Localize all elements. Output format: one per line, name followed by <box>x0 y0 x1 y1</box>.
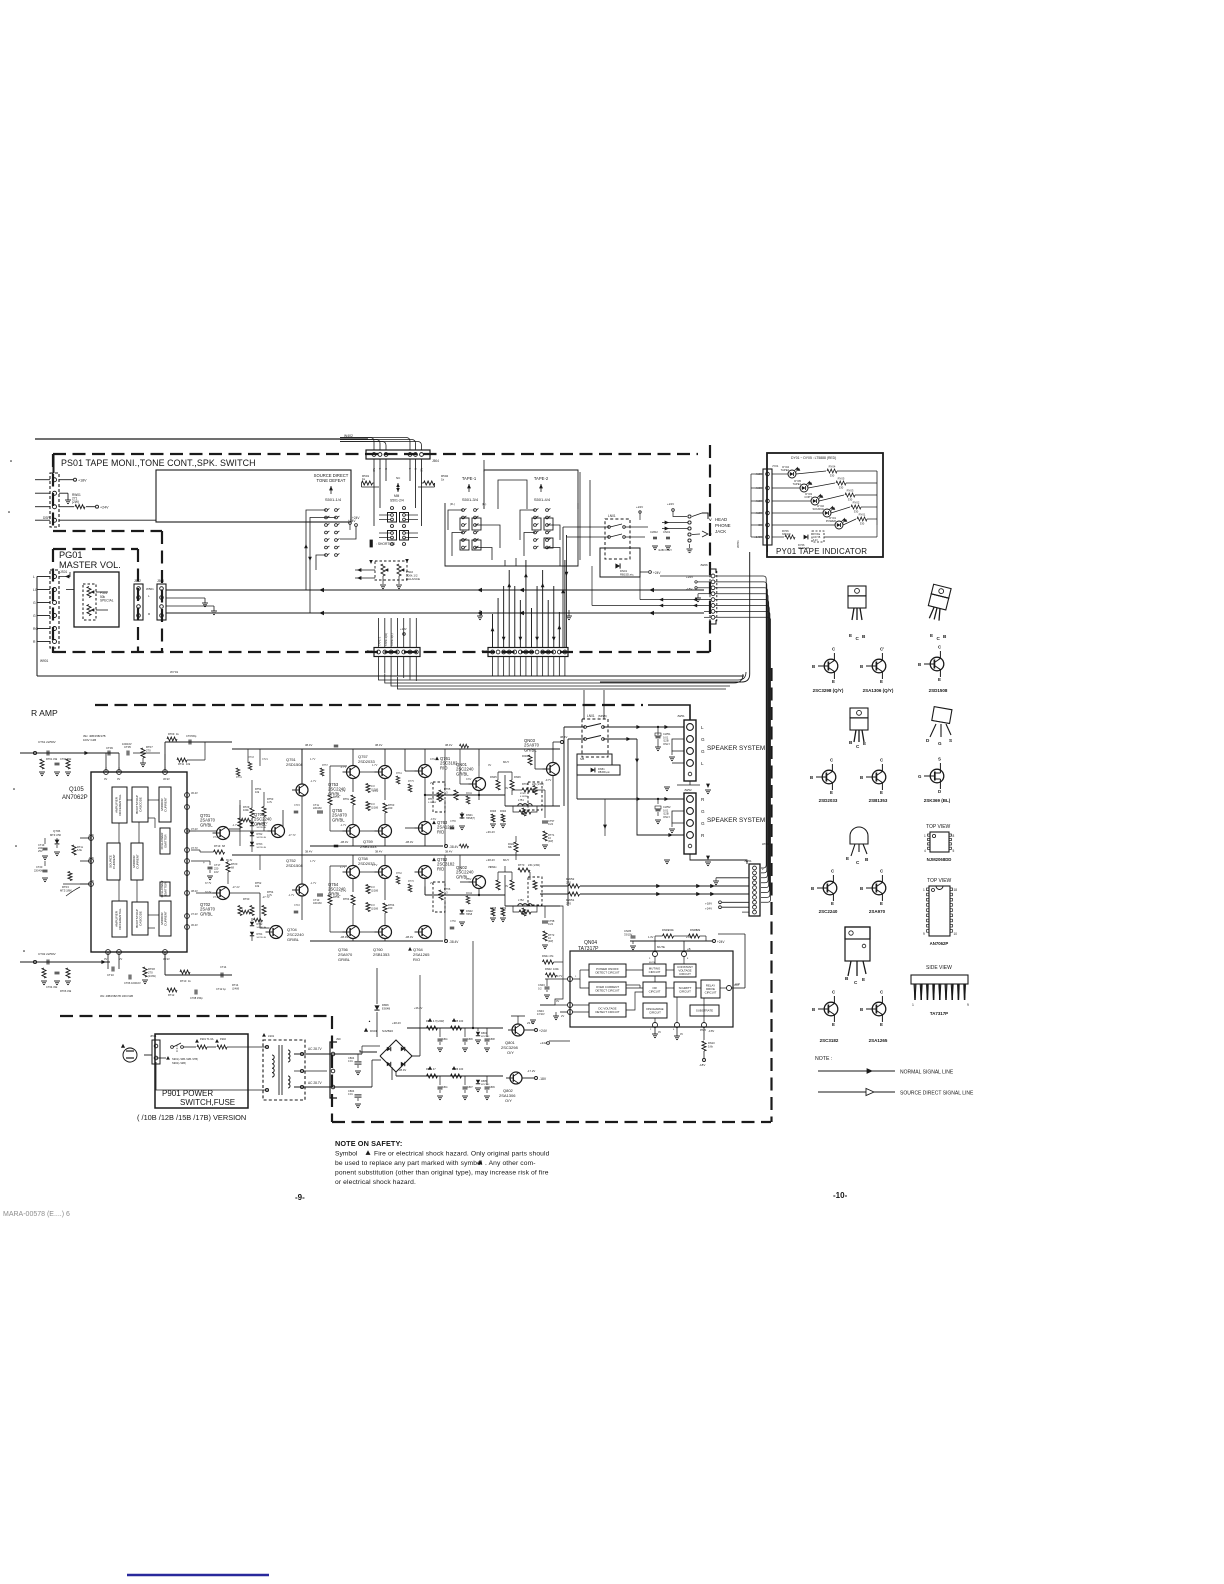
svg-text:MTZ24C: MTZ24C <box>481 1036 490 1038</box>
svg-text:CW02: CW02 <box>650 530 658 534</box>
svg-text:0.18/2W: 0.18/2W <box>428 802 437 804</box>
svg-text:RN13: RN13 <box>522 804 529 807</box>
svg-text:37.7V: 37.7V <box>191 846 198 850</box>
svg-text:. Any other com-: . Any other com- <box>485 1160 536 1167</box>
svg-text:D805: D805 <box>481 1080 487 1083</box>
svg-text:DT04: DT04 <box>257 933 264 936</box>
svg-text:CT55: CT55 <box>450 820 457 823</box>
svg-text:JW01: JW01 <box>744 859 752 863</box>
svg-text:PY01 TAPE INDICATOR: PY01 TAPE INDICATOR <box>776 547 867 556</box>
svg-text:-1.7V: -1.7V <box>232 823 238 827</box>
svg-text:37.2V: 37.2V <box>191 827 198 831</box>
svg-text:SPECIAL: SPECIAL <box>100 599 114 603</box>
svg-text:NORMAL SIGNAL LINE: NORMAL SIGNAL LINE <box>900 1070 954 1076</box>
svg-text:AC 28.7V: AC 28.7V <box>308 1047 323 1051</box>
svg-text:RT31: RT31 <box>236 776 242 779</box>
svg-text:-0.6V: -0.6V <box>372 789 378 793</box>
svg-text:2SB1353: 2SB1353 <box>373 952 390 957</box>
svg-text:38.4V: 38.4V <box>560 735 567 739</box>
svg-text:CIRCUIT: CIRCUIT <box>649 1010 661 1014</box>
svg-text:CT20: CT20 <box>36 865 43 869</box>
svg-text:36.4V: 36.4V <box>191 791 198 795</box>
svg-text:4: 4 <box>924 849 926 853</box>
svg-text:DT02: DT02 <box>257 833 264 836</box>
svg-text:0V: 0V <box>505 786 508 790</box>
svg-text:-18V: -18V <box>686 587 692 591</box>
svg-text:SPEAKER SYSTEM: SPEAKER SYSTEM <box>707 745 765 752</box>
svg-text:-27.7V: -27.7V <box>262 895 270 899</box>
svg-text:RT06 33k: RT06 33k <box>60 989 72 993</box>
svg-text:38.4V: 38.4V <box>375 743 382 747</box>
svg-text:NC: NC <box>420 468 424 472</box>
svg-text:330: 330 <box>860 521 865 525</box>
svg-text:: SHORTING: : SHORTING <box>376 542 396 546</box>
svg-text:2SD1508: 2SD1508 <box>929 688 948 693</box>
svg-text:S501-3/4: S501-3/4 <box>462 497 479 502</box>
svg-text:B: B <box>860 775 863 780</box>
svg-text:SOURCE: SOURCE <box>813 507 825 511</box>
svg-text:1k: 1k <box>362 477 366 481</box>
svg-text:R: R <box>384 468 388 470</box>
svg-text:TAPE-2: TAPE-2 <box>534 476 549 481</box>
svg-text:C808: C808 <box>489 1038 495 1041</box>
svg-text:38.4V: 38.4V <box>305 850 312 854</box>
svg-text:+24V: +24V <box>705 907 712 911</box>
svg-text:0V: 0V <box>488 865 491 869</box>
svg-text:PS01 TAPE MONI.,TONE CONT.,S: PS01 TAPE MONI.,TONE CONT.,SPK. SWITCH <box>61 458 256 468</box>
svg-text:C80x: C80x <box>442 1038 448 1041</box>
svg-text:CT61 22/50V: CT61 22/50V <box>38 740 56 744</box>
svg-text:RN10: RN10 <box>708 1041 715 1045</box>
svg-text:+24V: +24V <box>717 940 725 944</box>
svg-text:CT06 100/16V: CT06 100/16V <box>124 981 141 985</box>
svg-text:E: E <box>830 790 833 795</box>
svg-text:0V: 0V <box>488 763 491 767</box>
svg-text:6.2V: 6.2V <box>813 540 818 542</box>
svg-text:HZS8: HZS8 <box>466 913 473 916</box>
svg-text:(1/2W): (1/2W) <box>371 889 378 892</box>
svg-text:RB15D,etc.: RB15D,etc. <box>620 572 635 576</box>
svg-text:B: B <box>860 1007 863 1012</box>
svg-text:-1.7V: -1.7V <box>340 889 346 893</box>
svg-text:37.8V: 37.8V <box>213 835 220 839</box>
svg-text:C807: C807 <box>467 1086 473 1089</box>
svg-text:220k: 220k <box>668 928 674 932</box>
svg-text:O/Y: O/Y <box>507 1050 514 1055</box>
svg-text:RY04: RY04 <box>829 465 836 469</box>
svg-text:10: 10 <box>954 932 958 936</box>
svg-text:-1.7V: -1.7V <box>340 765 346 769</box>
svg-text:Q706: Q706 <box>53 829 61 833</box>
svg-text:SSTFLJH: SSTFLJH <box>257 937 267 939</box>
svg-text:2SD1508: 2SD1508 <box>286 863 303 868</box>
svg-text:RT57: RT57 <box>322 764 328 767</box>
svg-text:2SA1265: 2SA1265 <box>869 1038 888 1043</box>
svg-text:Q105: Q105 <box>69 787 84 793</box>
svg-text:37.2V: 37.2V <box>213 895 220 899</box>
svg-text:G: G <box>33 601 36 605</box>
svg-text:J502: J502 <box>134 579 141 583</box>
svg-text:MUTE: MUTE <box>649 962 656 964</box>
svg-text:RT55: RT55 <box>333 795 340 799</box>
svg-text:ponent substitution (other tha: ponent substitution (other than original… <box>335 1170 549 1177</box>
svg-text:JW52: JW52 <box>684 788 692 792</box>
svg-text:-18V: -18V <box>699 1063 705 1067</box>
svg-text:-6.8V: -6.8V <box>88 834 94 837</box>
svg-text:37.2V: 37.2V <box>205 891 212 894</box>
svg-text:38.2V: 38.2V <box>191 889 198 893</box>
svg-text:2SD2033: 2SD2033 <box>819 798 838 803</box>
svg-text:+24V: +24V <box>636 505 643 509</box>
svg-text:2SC3182: 2SC3182 <box>820 1038 839 1043</box>
svg-text:GR/BL: GR/BL <box>338 957 351 962</box>
svg-text:DY01 ~ DY05 : LT5888 (RED): DY01 ~ DY05 : LT5888 (RED) <box>791 456 836 460</box>
svg-text:-27V: -27V <box>262 821 268 825</box>
svg-text:JACK: JACK <box>715 529 726 534</box>
svg-text:TA7317P: TA7317P <box>930 1011 948 1016</box>
svg-text:-38.4V: -38.4V <box>340 840 348 844</box>
svg-text:5.6k: 5.6k <box>708 1044 714 1048</box>
svg-text:C809: C809 <box>489 1086 495 1089</box>
svg-text:3.3: 3.3 <box>371 802 375 806</box>
svg-text:DETECT CIRCUIT: DETECT CIRCUIT <box>595 970 619 974</box>
svg-text:-38.4V: -38.4V <box>405 840 413 844</box>
svg-text:▲: ▲ <box>368 1019 371 1023</box>
svg-text:MIRROR: MIRROR <box>132 855 136 868</box>
svg-text:+18V: +18V <box>705 902 712 906</box>
svg-text:-38.4V: -38.4V <box>405 935 413 939</box>
svg-text:CURRENT: CURRENT <box>164 797 168 812</box>
svg-text:0.18/2W: 0.18/2W <box>520 796 528 798</box>
svg-text:+24V: +24V <box>539 1029 548 1033</box>
svg-text:-38.4V: -38.4V <box>449 845 459 849</box>
svg-text:S/B: S/B <box>580 757 584 761</box>
svg-text:PIN 5: PIN 5 <box>700 1029 707 1032</box>
svg-text:ONLY: ONLY <box>663 742 670 746</box>
svg-text:RT03: RT03 <box>62 885 69 889</box>
svg-text:-1.7V: -1.7V <box>310 881 316 885</box>
svg-text:100 5B: 100 5B <box>813 537 821 539</box>
svg-text:E: E <box>938 677 941 682</box>
svg-text:L: L <box>701 725 704 730</box>
svg-text:0V: 0V <box>104 777 107 781</box>
svg-text:10k: 10k <box>255 790 260 794</box>
svg-text:38.9V: 38.9V <box>163 957 170 961</box>
svg-text:270: 270 <box>566 901 571 905</box>
svg-text:37.7V: 37.7V <box>205 882 212 885</box>
svg-text:E: E <box>831 901 834 906</box>
svg-text:R/D: R/D <box>437 829 444 834</box>
svg-text:E: E <box>880 901 883 906</box>
svg-text:1: 1 <box>912 1003 914 1007</box>
svg-text:or electrical shock hazard.: or electrical shock hazard. <box>335 1179 416 1186</box>
svg-text:B: B <box>860 886 863 891</box>
svg-text:38.4V: 38.4V <box>445 850 452 854</box>
svg-text:V: V <box>709 532 712 537</box>
svg-text:C806: C806 <box>467 1038 473 1041</box>
svg-text:CT12 1p: CT12 1p <box>216 987 227 991</box>
svg-text:-18V: -18V <box>539 1077 547 1081</box>
svg-text:CIRCUIT: CIRCUIT <box>679 989 691 993</box>
svg-text:AMPLIFIER: AMPLIFIER <box>115 796 119 813</box>
svg-text:E: E <box>880 679 883 684</box>
svg-text:BALANCE: BALANCE <box>406 577 420 581</box>
svg-text:1: 1 <box>924 834 926 838</box>
svg-text:(1/4W): (1/4W) <box>148 974 156 978</box>
svg-text:0V: 0V <box>658 1031 661 1034</box>
svg-text:-0.7V: -0.7V <box>545 778 551 782</box>
svg-text:-1.7V: -1.7V <box>310 779 316 783</box>
svg-text:S901( /10B /12B /17B): S901( /10B /12B /17B) <box>172 1057 198 1061</box>
svg-text:C': C' <box>880 647 884 652</box>
svg-text:W501: W501 <box>146 587 154 591</box>
svg-text:RT70: RT70 <box>518 863 525 867</box>
svg-text:HZS8(?): HZS8(?) <box>466 817 475 820</box>
svg-text:POWER: POWER <box>826 519 836 523</box>
svg-text:0V: 0V <box>505 884 508 888</box>
svg-text:CT09: CT09 <box>106 746 113 750</box>
svg-text:G: G <box>701 749 705 754</box>
svg-text:2SA970: 2SA970 <box>869 909 886 914</box>
svg-text:R/O: R/O <box>440 765 448 770</box>
svg-text:(1/4W): (1/4W) <box>232 987 239 990</box>
svg-text:E: E <box>832 1022 835 1027</box>
svg-text:L751: L751 <box>518 798 524 802</box>
svg-text:TAPE2: TAPE2 <box>781 468 790 472</box>
svg-text:TA7317P: TA7317P <box>578 946 599 952</box>
svg-text:-38.4V: -38.4V <box>398 1068 406 1072</box>
svg-text:100k: 100k <box>243 808 249 812</box>
svg-text:+B: +B <box>687 947 691 951</box>
svg-text:330: 330 <box>839 485 844 489</box>
svg-text:-0.8V: -0.8V <box>708 1029 714 1033</box>
svg-text:5.6k: 5.6k <box>77 848 83 852</box>
svg-text:3.3: 3.3 <box>371 784 375 788</box>
svg-text:47/10V: 47/10V <box>537 1013 545 1016</box>
svg-text:-17.2V: -17.2V <box>527 1069 535 1073</box>
svg-text:DETECT CIRCUIT: DETECT CIRCUIT <box>595 1010 619 1014</box>
svg-text:SPEAKER SYSTEM: SPEAKER SYSTEM <box>707 817 765 824</box>
svg-text:W901: W901 <box>40 659 49 663</box>
svg-text:0V: 0V <box>556 999 559 1003</box>
svg-text:2SC2240: 2SC2240 <box>819 909 838 914</box>
svg-text:EMITTER: EMITTER <box>164 834 168 848</box>
svg-text:LN?: LN? <box>735 982 740 986</box>
svg-text:JW51: JW51 <box>677 714 685 718</box>
svg-text:CIRCUIT: CIRCUIT <box>649 970 661 974</box>
svg-text:DIFFERENTIAL: DIFFERENTIAL <box>118 908 122 930</box>
svg-text:230 (1/4W): 230 (1/4W) <box>528 864 540 867</box>
svg-text:RT11: RT11 <box>178 762 185 766</box>
svg-text:BOOTSTRAP: BOOTSTRAP <box>135 795 139 814</box>
svg-text:CT63 33k: CT63 33k <box>60 757 72 761</box>
svg-text:-0.6V: -0.6V <box>430 817 436 821</box>
svg-text:MUTE: MUTE <box>657 945 665 949</box>
svg-text:-9-: -9- <box>295 1193 305 1202</box>
svg-text:0V: 0V <box>680 1033 683 1036</box>
svg-text:220: 220 <box>388 806 393 810</box>
svg-text:LN01: LN01 <box>587 714 595 718</box>
svg-text:(SP25): (SP25) <box>598 714 607 718</box>
svg-text:38.4V: 38.4V <box>375 850 382 854</box>
svg-text:CT02 22/50V: CT02 22/50V <box>38 952 56 956</box>
svg-text:9: 9 <box>923 932 925 936</box>
svg-text:E: E <box>863 741 866 746</box>
svg-text:MTZJ5.1B: MTZJ5.1B <box>798 547 809 550</box>
svg-text:CT56: CT56 <box>450 920 457 923</box>
svg-text:68k: 68k <box>696 928 701 932</box>
svg-text:WY01: WY01 <box>170 670 179 674</box>
svg-text:CURRENT: CURRENT <box>112 854 116 869</box>
svg-text:2V: 2V <box>430 881 433 885</box>
svg-text:RY05: RY05 <box>838 477 845 481</box>
svg-text:CT17: CT17 <box>214 863 221 867</box>
svg-text:JW06: JW06 <box>700 563 708 567</box>
svg-text:RN11: RN11 <box>466 792 473 795</box>
svg-text:RT6x: RT6x <box>343 797 350 801</box>
svg-text:G: G <box>701 809 705 814</box>
svg-text:MARA-00578 (E....) 6: MARA-00578 (E....) 6 <box>3 1211 70 1218</box>
svg-text:J504: J504 <box>432 459 439 463</box>
svg-text:R: R <box>414 468 418 470</box>
svg-text:G: G <box>701 737 705 742</box>
svg-text:2SD1508: 2SD1508 <box>286 762 303 767</box>
svg-text:RY01: RY01 <box>859 513 866 517</box>
svg-text:-1.7V: -1.7V <box>288 893 294 897</box>
svg-text:CASCODE: CASCODE <box>139 911 143 926</box>
svg-text:J501: J501 <box>481 649 488 653</box>
svg-text:CASCODE: CASCODE <box>139 797 143 812</box>
svg-text:NOTE ON SAFETY:: NOTE ON SAFETY: <box>335 1139 402 1148</box>
svg-text:GR/BL: GR/BL <box>200 911 213 916</box>
svg-text:RT75: RT75 <box>408 780 414 783</box>
svg-text:36c: 40B/15B/17B 100V/12B: 36c: 40B/15B/17B 100V/12B <box>100 994 133 998</box>
svg-text:220: 220 <box>214 866 219 870</box>
svg-text:C708 150p: C708 150p <box>190 996 203 1000</box>
svg-text:+18V: +18V <box>78 479 87 483</box>
svg-text:R/O: R/O <box>413 957 420 962</box>
svg-text:33/10V: 33/10V <box>624 932 632 936</box>
svg-text:-38.4V: -38.4V <box>449 940 459 944</box>
svg-text:0.6V: 0.6V <box>430 757 436 761</box>
svg-text:DT03: DT03 <box>257 843 264 846</box>
svg-text:Fire or electrical shock hazar: Fire or electrical shock hazard. Only or… <box>374 1151 550 1158</box>
svg-text:SSTFLJH: SSTFLJH <box>257 847 267 849</box>
svg-text:37.2V: 37.2V <box>191 912 198 916</box>
svg-text:/12B ONLY: /12B ONLY <box>658 548 672 552</box>
svg-text:0V: 0V <box>91 880 94 883</box>
svg-text:BOOTSTRAP: BOOTSTRAP <box>135 909 139 928</box>
svg-text:TAPE-2: TAPE-2 <box>378 636 382 646</box>
svg-text:D806: D806 <box>382 1003 389 1007</box>
svg-text:(1/2W): (1/2W) <box>371 806 378 809</box>
svg-text:TAPE-1(R): TAPE-1(R) <box>384 633 388 646</box>
svg-text:TONE DEFEAT: TONE DEFEAT <box>317 478 346 483</box>
svg-text:220/40V: 220/40V <box>34 869 43 872</box>
svg-text:RN05: RN05 <box>490 775 497 779</box>
svg-text:SSTFLJH: SSTFLJH <box>257 837 267 839</box>
svg-text:RT12: RT12 <box>168 993 175 997</box>
svg-text:O/Y: O/Y <box>505 1098 512 1103</box>
svg-text:0.6V: 0.6V <box>466 777 472 781</box>
svg-text:DETECT CIRCUIT: DETECT CIRCUIT <box>595 988 619 992</box>
svg-text:5: 5 <box>953 849 955 853</box>
svg-text:MUY: MUY <box>503 858 509 862</box>
svg-text:RY02: RY02 <box>853 501 860 505</box>
svg-text:9: 9 <box>967 1003 969 1007</box>
svg-text:D804: D804 <box>481 1032 487 1035</box>
svg-text:B: B <box>812 664 815 669</box>
svg-text:RN09: RN09 <box>500 907 507 910</box>
svg-text:(2W): (2W) <box>548 840 553 843</box>
svg-text:RN02: RN02 <box>545 967 552 971</box>
svg-text:1.7V: 1.7V <box>340 865 346 869</box>
svg-text:2SB1353: 2SB1353 <box>360 844 377 849</box>
svg-text:RT64: RT64 <box>343 897 350 901</box>
svg-text:1: 1 <box>923 888 925 892</box>
svg-text:SSTFLJH: SSTFLJH <box>257 827 267 829</box>
svg-text:2V: 2V <box>561 1014 564 1018</box>
svg-text:S501-4/4: S501-4/4 <box>534 497 551 502</box>
svg-text:RN12: RN12 <box>466 892 473 895</box>
svg-text:-6.2V: -6.2V <box>88 857 94 860</box>
svg-text:RT09: RT09 <box>168 732 175 736</box>
svg-text:B: B <box>860 664 863 669</box>
svg-text:RT14: RT14 <box>232 983 239 987</box>
svg-text:+24V: +24V <box>100 506 109 510</box>
svg-text:CT16: CT16 <box>294 904 301 907</box>
svg-text:23.5V: 23.5V <box>527 1021 534 1025</box>
svg-text:L: L <box>701 761 704 766</box>
svg-text:+24V: +24V <box>352 516 360 520</box>
svg-text:J503: J503 <box>157 579 164 583</box>
svg-text:DIFFERENTIAL: DIFFERENTIAL <box>118 794 122 816</box>
svg-text:SIDE VIEW: SIDE VIEW <box>926 965 952 971</box>
svg-text:MTZ15C: MTZ15C <box>481 1084 490 1086</box>
svg-text:CT04 33k: CT04 33k <box>46 985 58 989</box>
svg-text:-27.7V: -27.7V <box>288 833 296 837</box>
svg-text:D901: D901 <box>370 1029 378 1033</box>
svg-text:JP01: JP01 <box>150 1034 157 1038</box>
svg-text:L: L <box>33 575 35 579</box>
svg-text:1.7V: 1.7V <box>310 859 316 863</box>
svg-text:0.6V: 0.6V <box>466 877 472 881</box>
svg-text:MIRROR: MIRROR <box>160 798 164 811</box>
svg-text:+38.4V: +38.4V <box>486 858 495 862</box>
svg-text:330/1W: 330/1W <box>782 533 791 536</box>
svg-text:220/16V: 220/16V <box>313 807 322 810</box>
svg-text:+24V: +24V <box>540 1041 547 1045</box>
svg-text:CT21: CT21 <box>262 758 269 761</box>
svg-text:4.7k: 4.7k <box>267 800 273 804</box>
svg-text:MIRROR: MIRROR <box>160 912 164 925</box>
svg-text:ONLY: ONLY <box>663 815 670 819</box>
svg-text:3.3: 3.3 <box>371 903 375 907</box>
svg-text:F902: F902 <box>220 1037 226 1041</box>
svg-text:S: S <box>938 757 941 762</box>
svg-text:HEAD: HEAD <box>715 517 727 522</box>
svg-text:E: E <box>846 856 849 861</box>
svg-text:RT10: RT10 <box>180 979 187 983</box>
svg-text:RT30: RT30 <box>243 897 250 901</box>
svg-text:0.22: 0.22 <box>548 822 554 826</box>
svg-text:E: E <box>832 679 835 684</box>
svg-text:F901 T1.6A: F901 T1.6A <box>200 1037 214 1041</box>
svg-text:RT19: RT19 <box>214 844 221 848</box>
svg-text:CIRCUIT: CIRCUIT <box>705 991 717 995</box>
svg-text:C80x: C80x <box>442 1086 448 1089</box>
svg-text:(R-): (R-) <box>450 502 455 506</box>
